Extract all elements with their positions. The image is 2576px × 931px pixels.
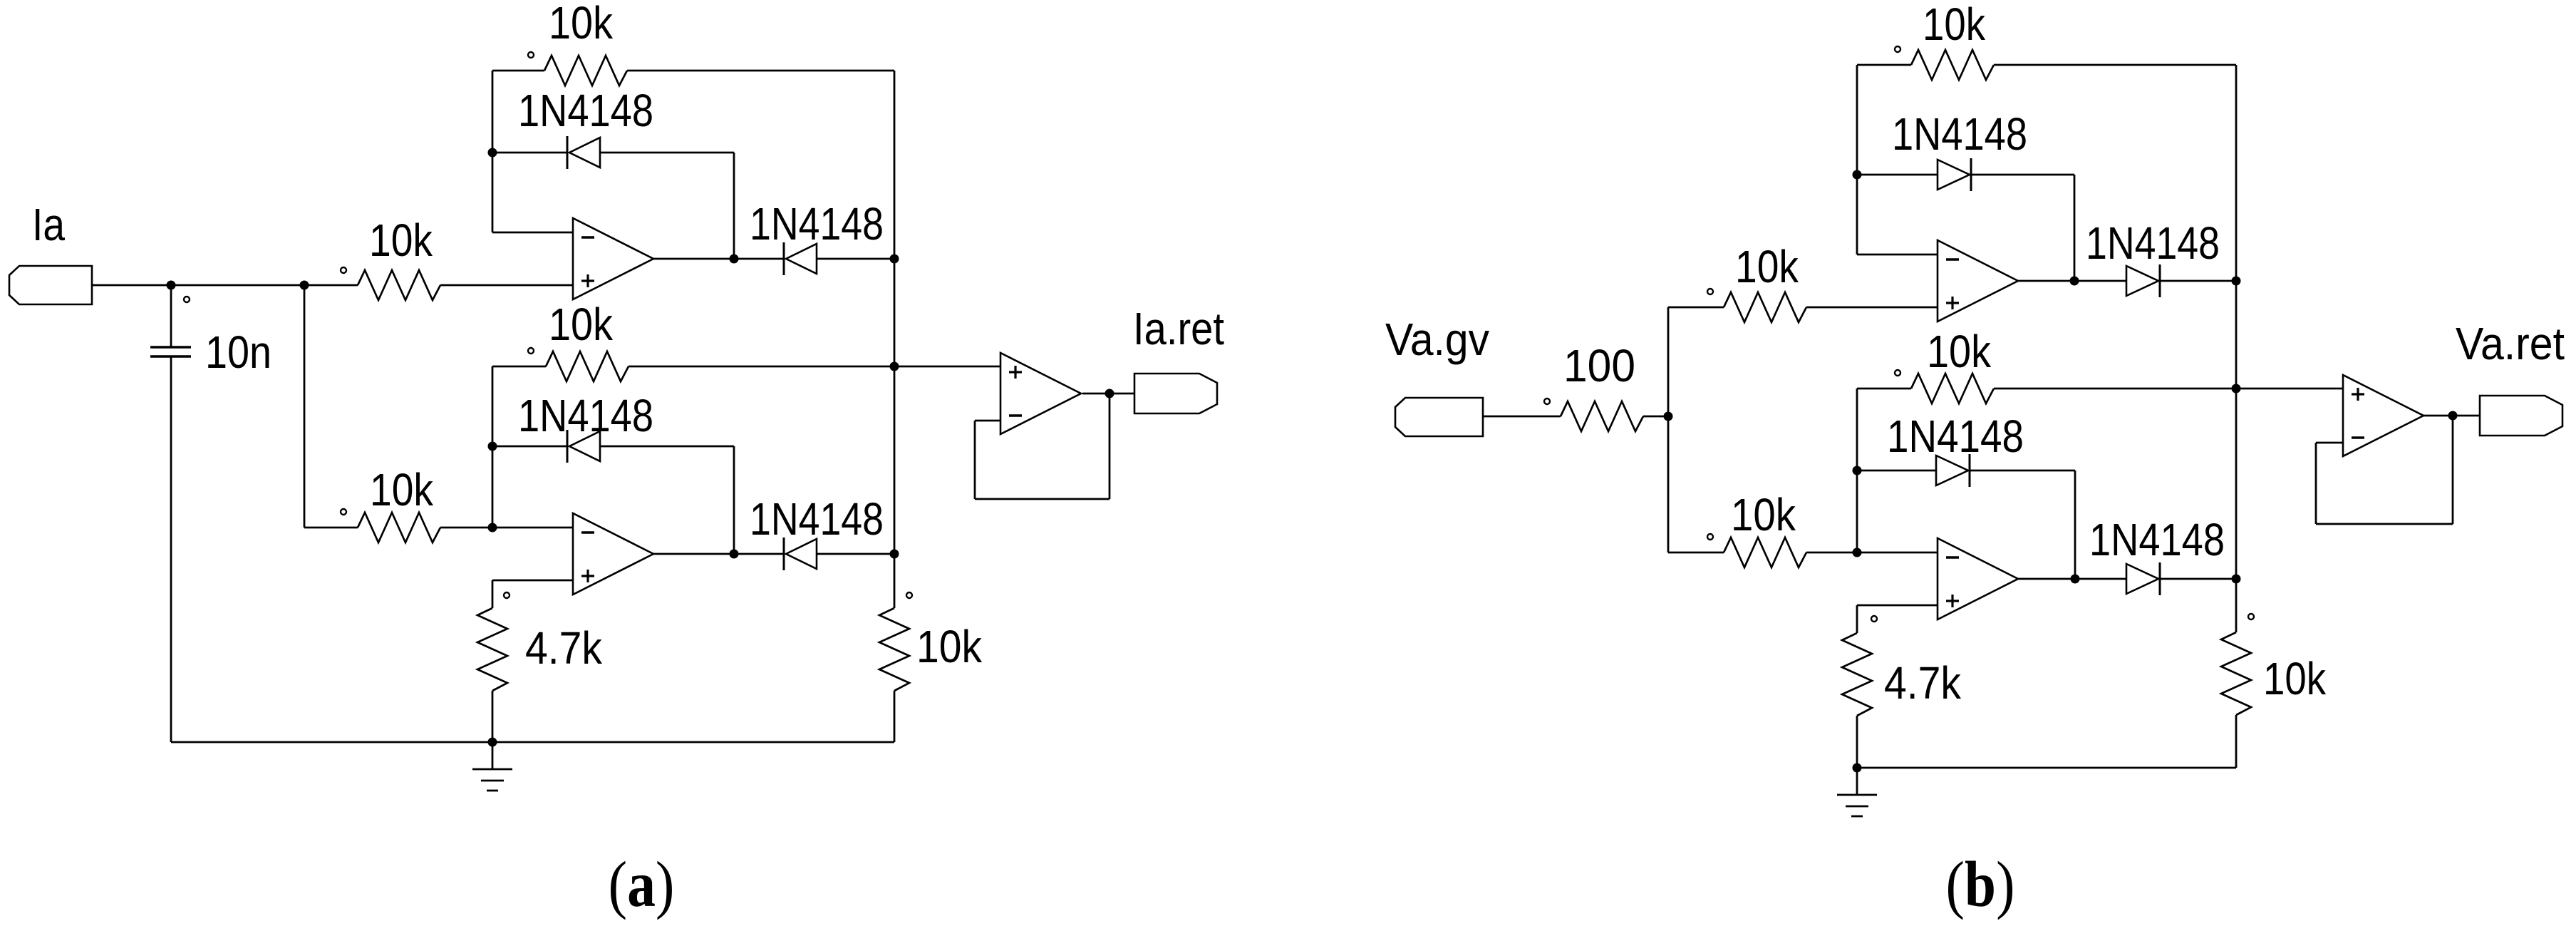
svg-text:1N4148: 1N4148 (1892, 108, 2027, 160)
svg-text:10k: 10k (2263, 653, 2327, 704)
svg-text:Ia.ret: Ia.ret (1133, 303, 1224, 354)
svg-text:10k: 10k (1735, 241, 1799, 292)
svg-text:10k: 10k (1731, 489, 1796, 540)
svg-text:1N4148: 1N4148 (750, 493, 884, 545)
svg-text:10k: 10k (369, 215, 433, 266)
svg-text:Va.ret: Va.ret (2456, 318, 2565, 369)
svg-text:Va.gv: Va.gv (1385, 314, 1489, 365)
svg-text:10k: 10k (549, 0, 614, 48)
svg-text:10k: 10k (370, 464, 434, 515)
svg-text:10k: 10k (916, 621, 983, 672)
svg-text:4.7k: 4.7k (525, 622, 603, 674)
svg-text:1N4148: 1N4148 (518, 390, 653, 441)
svg-text:1N4148: 1N4148 (2089, 514, 2225, 565)
svg-text:1N4148: 1N4148 (750, 198, 884, 250)
svg-text:10k: 10k (1927, 326, 1992, 377)
svg-text:(b): (b) (1946, 848, 2015, 920)
svg-text:10k: 10k (549, 299, 614, 350)
svg-text:Ia: Ia (32, 199, 65, 250)
svg-text:1N4148: 1N4148 (2086, 217, 2220, 269)
svg-text:(a): (a) (609, 848, 675, 920)
svg-text:4.7k: 4.7k (1884, 657, 1962, 709)
svg-text:1N4148: 1N4148 (518, 85, 653, 136)
svg-text:100: 100 (1563, 340, 1635, 391)
svg-text:1N4148: 1N4148 (1887, 411, 2024, 462)
svg-text:10n: 10n (205, 326, 271, 378)
svg-text:10k: 10k (1923, 0, 1986, 50)
